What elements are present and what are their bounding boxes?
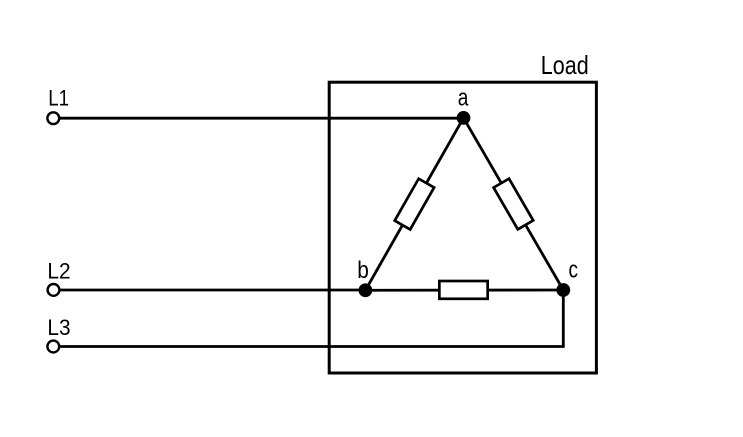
- svg-text:c: c: [569, 257, 579, 284]
- svg-text:L3: L3: [47, 315, 70, 340]
- svg-text:Load: Load: [541, 52, 589, 80]
- svg-text:L2: L2: [47, 258, 70, 283]
- svg-text:b: b: [357, 257, 369, 284]
- svg-text:L1: L1: [48, 86, 69, 111]
- svg-text:a: a: [458, 85, 469, 112]
